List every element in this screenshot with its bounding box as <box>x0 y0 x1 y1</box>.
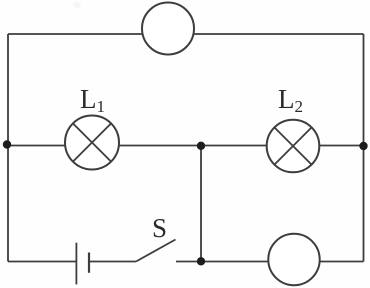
wire: battery to switch pivot <box>89 261 136 263</box>
battery B1: long plate <box>75 243 77 285</box>
svg-text:S: S <box>152 213 167 243</box>
wire: left side, top corner to bottom corner <box>7 34 9 262</box>
wire: top side, left corner to top-right corner <box>8 33 364 35</box>
node B (middle junction dot) <box>197 142 205 150</box>
node D (right junction dot) <box>359 142 367 150</box>
lamp L1 <box>65 116 119 170</box>
wire: middle vertical from node B down to node C <box>200 146 202 262</box>
faint scan smudge <box>73 2 81 9</box>
meter U2 (bottom circle) <box>268 234 319 285</box>
wire: switch contact to node C <box>176 261 201 263</box>
svg-text:L2: L2 <box>278 84 303 116</box>
wire: node C to bottom meter and to bottom-right corner <box>201 261 364 263</box>
wire: middle horizontal branch <box>8 145 364 147</box>
battery B1: short plate <box>88 253 90 273</box>
node C (bottom junction dot) <box>197 257 205 265</box>
wire: bottom left, corner to battery plate <box>8 261 76 263</box>
node A (left junction dot) <box>3 140 11 148</box>
wire: right side, top corner to bottom corner <box>363 34 365 262</box>
lamp L2 <box>267 120 320 173</box>
meter U1 (top circle) <box>142 3 194 55</box>
svg-text:L1: L1 <box>80 84 105 116</box>
switch S blade <box>136 240 176 262</box>
